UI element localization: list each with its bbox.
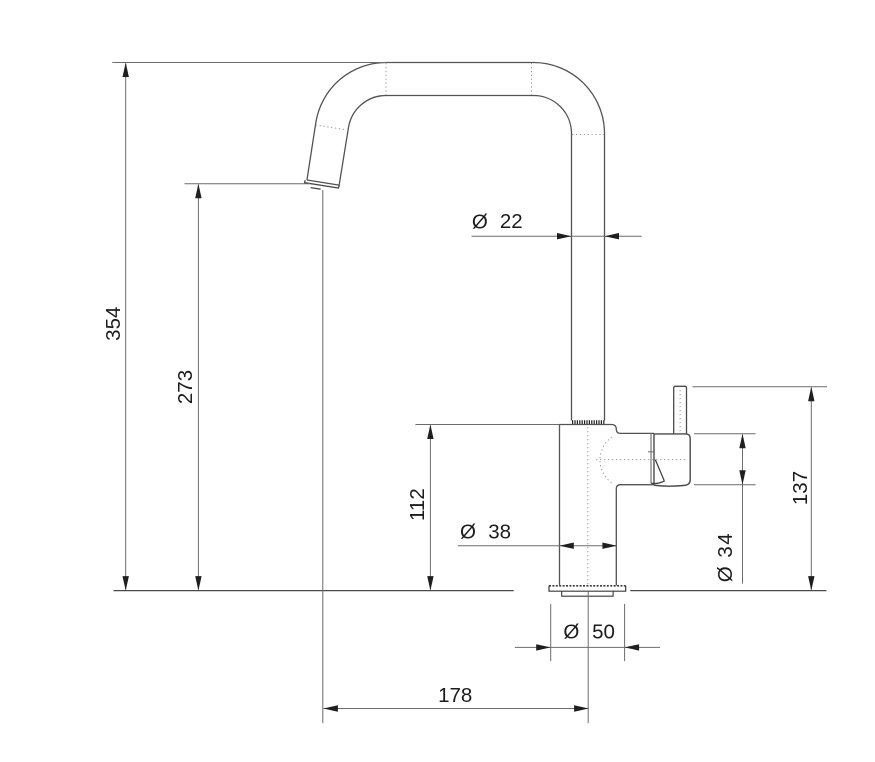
dim 112 extension line — [415, 424, 559, 426]
dim 178 extension line right — [587, 591, 589, 723]
dim 112 arrow top — [427, 425, 433, 440]
dim 137 arrow bottom — [808, 576, 814, 591]
dim Ø34 extension lines — [694, 434, 756, 485]
svg-text:112: 112 — [406, 488, 429, 521]
dim 354 arrow top — [123, 63, 129, 78]
tube seam dotted — [316, 125, 347, 130]
svg-text:Ø 34: Ø 34 — [714, 532, 737, 582]
dim 112 line — [429, 426, 431, 590]
spout aerator tip — [305, 180, 340, 189]
handle housing Ø34 — [654, 434, 690, 486]
dim Ø38 line — [458, 545, 617, 547]
svg-text:38: 38 — [488, 521, 511, 544]
dim 112 arrow bottom — [427, 576, 433, 591]
dim Ø50 arrow left — [536, 644, 551, 650]
dim 354 line — [125, 64, 127, 590]
dim 137 arrow top — [808, 387, 814, 402]
dim Ø34 line — [742, 435, 744, 584]
pipe-body joint band — [572, 420, 605, 424]
svg-text:Ø: Ø — [460, 521, 476, 544]
dim 354 extension line top — [112, 62, 387, 64]
body centerline — [587, 427, 589, 585]
dim 178 arrow left — [323, 705, 338, 711]
svg-text:Ø: Ø — [472, 211, 488, 234]
dim 354 arrow bottom — [123, 576, 129, 591]
dim Ø38 arrow right — [602, 543, 617, 549]
dim Ø50 extension lines — [551, 604, 625, 661]
dim 178 line — [323, 708, 588, 710]
dim Ø22 arrow right — [605, 233, 620, 239]
dim 273 arrow top — [195, 184, 201, 199]
side outlet centerline — [596, 459, 686, 461]
cartridge internals — [651, 460, 665, 484]
dim 273 line — [197, 185, 199, 590]
bend seam dotted right vertical — [531, 63, 533, 95]
bend seam dotted left — [385, 63, 387, 95]
svg-text:137: 137 — [789, 471, 812, 505]
dim 178 arrow right — [574, 705, 589, 711]
spout outline — [307, 63, 605, 421]
dim 273 arrow bottom — [195, 576, 201, 591]
rod centerline — [679, 390, 681, 432]
svg-text:Ø: Ø — [563, 621, 579, 644]
dim 137 line — [810, 388, 812, 590]
cartridge boundary — [648, 433, 655, 483]
dim Ø34 arrow bottom — [739, 470, 745, 485]
bend seam dotted right horizontal — [572, 134, 604, 136]
dim Ø22 arrow left — [557, 233, 572, 239]
svg-text:273: 273 — [174, 370, 197, 404]
dim Ø38 arrow left — [559, 543, 574, 549]
dim 178 extension line left — [322, 190, 324, 723]
base gasket — [562, 591, 613, 596]
handle lever rod — [674, 386, 687, 433]
svg-text:50: 50 — [592, 621, 615, 644]
dim Ø22 line — [472, 235, 642, 237]
flange top serrated edge — [549, 585, 626, 587]
svg-text:22: 22 — [500, 210, 523, 233]
dim 273 extension line — [185, 183, 311, 185]
dim 137 extension line top — [693, 386, 828, 388]
counter baseline — [114, 590, 827, 592]
dim Ø50 arrow right — [625, 644, 640, 650]
dim Ø34 arrow top — [739, 434, 745, 449]
body Ø38 — [560, 425, 655, 586]
internal passage dotted dome — [600, 437, 613, 484]
svg-text:354: 354 — [102, 307, 125, 341]
base flange — [549, 586, 626, 591]
dim Ø50 line — [515, 646, 660, 648]
svg-text:178: 178 — [438, 684, 472, 707]
